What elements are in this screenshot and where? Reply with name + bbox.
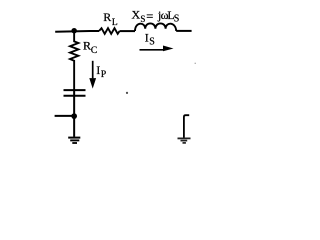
svg-text:S: S [174, 13, 180, 24]
resistor R_L [99, 28, 120, 34]
svg-text:L: L [112, 18, 118, 28]
wire top-right horizontal [176, 30, 191, 32]
svg-text:S: S [140, 14, 145, 24]
scan speck 2 [195, 63, 196, 64]
node B junction dot bottom [71, 113, 77, 119]
svg-text:R: R [83, 38, 91, 52]
svg-text:=: = [146, 9, 153, 23]
svg-text:C: C [91, 46, 97, 56]
svg-text:R: R [103, 10, 111, 24]
wire capacitor to bottom junction [73, 90, 75, 116]
capacitor plate bottom [64, 95, 86, 97]
arrow I_S [140, 49, 165, 51]
node A junction dot top [71, 28, 77, 34]
inductor L_S (4 loops) [135, 23, 176, 31]
wire top-left horizontal [55, 30, 99, 33]
svg-text:X: X [132, 8, 141, 22]
wire junction to ground [73, 116, 75, 137]
resistor R_C [70, 31, 78, 90]
scan speck 1 [126, 92, 128, 94]
svg-text:I: I [96, 65, 100, 77]
wire right vertical with hook [184, 115, 189, 137]
svg-text:P: P [101, 70, 106, 80]
ground left [68, 137, 80, 139]
arrow I_P [92, 61, 94, 79]
svg-text:I: I [145, 31, 149, 45]
capacitor plate top [64, 89, 86, 91]
svg-text:S: S [149, 37, 155, 48]
wire bottom-left stub [55, 115, 75, 117]
wire between R_L and inductor [120, 30, 136, 32]
ground right [178, 137, 191, 139]
